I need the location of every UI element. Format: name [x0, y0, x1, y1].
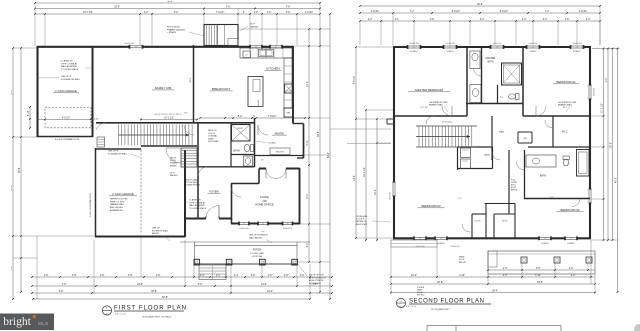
- svg-text:2’-2”: 2’-2”: [174, 12, 179, 14]
- svg-text:2’-2”: 2’-2”: [522, 19, 527, 21]
- svg-text:FOUNDATION WALL: FOUNDATION WALL: [61, 78, 81, 81]
- svg-text:4’-0”: 4’-0”: [503, 268, 508, 270]
- svg-text:2’-8 3/4”: 2’-8 3/4”: [371, 11, 380, 13]
- svg-text:BEDROOM 3: BEDROOM 3: [356, 224, 367, 226]
- svg-text:9’-0”: 9’-0”: [606, 77, 608, 82]
- svg-text:2 CAR GARAGE: 2 CAR GARAGE: [112, 192, 134, 196]
- svg-text:FACADE OF: FACADE OF: [356, 220, 367, 223]
- svg-text:4’-6”: 4’-6”: [430, 19, 435, 21]
- svg-text:36”H Railing: 36”H Railing: [442, 122, 452, 124]
- svg-text:8’-0”: 8’-0”: [307, 193, 309, 198]
- svg-text:+ STAIRS: + STAIRS: [167, 31, 176, 34]
- svg-text:CLOSING HINGES: CLOSING HINGES: [184, 185, 201, 187]
- svg-text:BEARING WALL: BEARING WALL: [429, 104, 443, 107]
- svg-text:7’-2”: 7’-2”: [410, 11, 415, 13]
- svg-text:BREAKFAST: BREAKFAST: [212, 87, 230, 91]
- svg-text:33’-0”: 33’-0”: [114, 7, 120, 9]
- svg-text:4’-0”: 4’-0”: [569, 268, 574, 270]
- svg-text:W.I.C: W.I.C: [502, 221, 508, 223]
- svg-text:W/ PTD WOOD OR: W/ PTD WOOD OR: [309, 277, 326, 279]
- svg-text:SHED: SHED: [459, 257, 465, 259]
- svg-text:ISLAND: ISLAND: [257, 99, 260, 106]
- svg-text:16’-4”: 16’-4”: [267, 291, 273, 293]
- svg-text:W.I.C.: W.I.C.: [562, 132, 568, 134]
- svg-text:5’-8”: 5’-8”: [251, 275, 256, 277]
- svg-text:10’-1 1/2”: 10’-1 1/2”: [164, 118, 174, 120]
- svg-text:GARAGE WALL: GARAGE WALL: [110, 203, 125, 206]
- svg-text:2’-6”: 2’-6”: [565, 19, 570, 21]
- svg-text:PR TR WOOD: PR TR WOOD: [167, 27, 181, 29]
- svg-text:4’-1”: 4’-1”: [395, 19, 400, 21]
- svg-text:3-0x4-0 DH: 3-0x4-0 DH: [124, 43, 134, 45]
- svg-text:14’-2”: 14’-2”: [354, 175, 356, 181]
- svg-text:9’-7”: 9’-7”: [550, 197, 554, 199]
- svg-text:CB&W ‘E’ LABEL: CB&W ‘E’ LABEL: [184, 179, 198, 182]
- svg-text:HOME OFFICE: HOME OFFICE: [255, 203, 274, 207]
- svg-text:4’-0”: 4’-0”: [307, 242, 309, 247]
- svg-text:40’-2”: 40’-2”: [616, 177, 618, 183]
- svg-text:1-4x4-0 SH: 1-4x4-0 SH: [390, 191, 392, 200]
- svg-text:36’-8”: 36’-8”: [611, 142, 613, 148]
- svg-text:8’-0x6’-8 OVERHEAD DOOR: 8’-0x6’-8 OVERHEAD DOOR: [55, 138, 80, 141]
- svg-text:(OPTIONAL): (OPTIONAL): [208, 140, 219, 143]
- svg-text:MLS: MLS: [38, 321, 49, 326]
- svg-text:MASTER BEDROOM: MASTER BEDROOM: [415, 88, 443, 92]
- svg-text:LINE OF: LINE OF: [152, 228, 161, 230]
- svg-text:EGRESS: EGRESS: [410, 51, 418, 53]
- svg-text:2x4 INTERIOR LOAD: 2x4 INTERIOR LOAD: [558, 101, 577, 104]
- svg-text:LIVING: LIVING: [260, 195, 269, 199]
- svg-text:6 CONC SLAB: 6 CONC SLAB: [250, 252, 264, 255]
- svg-text:PACK ON: PACK ON: [208, 129, 217, 132]
- svg-text:LIN.: LIN.: [523, 138, 527, 140]
- svg-text:ROOF: ROOF: [459, 259, 465, 261]
- svg-text:297 SQUARE FEET: 297 SQUARE FEET: [431, 308, 450, 311]
- svg-text:PORCH: PORCH: [253, 250, 262, 252]
- svg-text:7’-2”: 7’-2”: [545, 11, 550, 13]
- svg-text:EGRESS: EGRESS: [541, 243, 549, 245]
- svg-text:4’-8”: 4’-8”: [128, 275, 133, 277]
- svg-text:B 4 OF 4 TR @ 7 7/8” & 7 7/32”: B 4 OF 4 TR @ 7 7/8” & 7 7/32” R: [154, 114, 182, 116]
- svg-text:30’-8”: 30’-8”: [151, 291, 157, 293]
- svg-text:4’-8”: 4’-8”: [100, 275, 105, 277]
- svg-text:4’-6”: 4’-6”: [268, 275, 273, 277]
- svg-text:2x4 INTERIOR LOAD: 2x4 INTERIOR LOAD: [429, 101, 448, 104]
- svg-text:1 LAYER 5/8”: 1 LAYER 5/8”: [189, 199, 201, 202]
- svg-text:5’-0”: 5’-0”: [198, 284, 203, 286]
- svg-text:2’-0”: 2’-0”: [254, 12, 259, 14]
- svg-text:EGRESS: EGRESS: [573, 51, 581, 53]
- svg-text:BATH: BATH: [540, 175, 546, 178]
- svg-text:9’-2”: 9’-2”: [184, 113, 188, 115]
- svg-text:7’-6 1/2”: 7’-6 1/2”: [216, 12, 225, 14]
- svg-text:1 LAYER 5/8”: 1 LAYER 5/8”: [61, 60, 73, 63]
- svg-text:SHWR: SHWR: [237, 128, 243, 130]
- svg-text:CONCEAL: CONCEAL: [208, 135, 217, 138]
- svg-text:4’-10”: 4’-10”: [459, 275, 465, 277]
- svg-text:10’-0”: 10’-0”: [411, 275, 417, 277]
- svg-text:3’-0”: 3’-0”: [300, 275, 305, 277]
- svg-text:20’-8”: 20’-8”: [437, 282, 443, 284]
- svg-text:EGRESS: EGRESS: [529, 51, 537, 53]
- svg-text:7’-8”: 7’-8”: [62, 284, 67, 286]
- svg-text:39’-4”: 39’-4”: [492, 291, 498, 293]
- svg-text:1/4” = 1’-0”: 1/4” = 1’-0”: [115, 314, 126, 316]
- svg-text:FRAMED: FRAMED: [170, 162, 178, 165]
- svg-text:1-4x5-0 GL: 1-4x5-0 GL: [493, 43, 502, 45]
- svg-text:FRAMED LANDING: FRAMED LANDING: [167, 28, 185, 31]
- svg-text:7’-6”: 7’-6”: [286, 7, 291, 9]
- svg-text:16’-7 1/4”: 16’-7 1/4”: [83, 12, 93, 14]
- svg-text:STAIR: STAIR: [208, 137, 214, 140]
- svg-text:8’-8 1/2”: 8’-8 1/2”: [500, 11, 509, 13]
- svg-text:FOYER: FOYER: [209, 190, 218, 194]
- svg-text:4’-10”: 4’-10”: [535, 275, 541, 277]
- svg-text:AND CEILING: AND CEILING: [110, 206, 123, 209]
- svg-text:OR: OR: [262, 199, 266, 203]
- svg-text:WALL ABOVE: WALL ABOVE: [249, 236, 262, 239]
- svg-text:STAIRS: STAIRS: [170, 164, 177, 167]
- svg-text:FAMILY RM: FAMILY RM: [155, 86, 172, 90]
- svg-text:24’-8”: 24’-8”: [137, 284, 143, 286]
- svg-text:3’-2”: 3’-2”: [480, 19, 485, 21]
- svg-text:3-0x5-0 DH: 3-0x5-0 DH: [410, 43, 420, 45]
- svg-text:3-0x5-0 DH: 3-0x5-0 DH: [239, 228, 249, 230]
- svg-text:2’-10”: 2’-10”: [94, 118, 99, 120]
- svg-text:8’-8 1/2”: 8’-8 1/2”: [452, 11, 461, 13]
- svg-text:RAILING: RAILING: [250, 25, 258, 28]
- svg-text:2’-2”: 2’-2”: [586, 19, 591, 21]
- svg-text:1-4x6-8 DH: 1-4x6-8 DH: [451, 246, 461, 248]
- svg-text:TYPE ‘X’ GWB AT: TYPE ‘X’ GWB AT: [189, 201, 206, 204]
- svg-text:BEDROOM #3: BEDROOM #3: [422, 204, 441, 208]
- svg-text:14’-6”: 14’-6”: [261, 284, 267, 286]
- svg-text:TYPE ‘X’ GWB AT: TYPE ‘X’ GWB AT: [61, 62, 78, 65]
- svg-text:EGRESS: EGRESS: [437, 243, 445, 245]
- svg-text:ALUM. TRIM OR: ALUM. TRIM OR: [309, 279, 324, 282]
- svg-text:2N SQUARE FEET, LIV SPACE: 2N SQUARE FEET, LIV SPACE: [142, 315, 172, 318]
- svg-text:6x6 PR TR POST: 6x6 PR TR POST: [309, 275, 325, 277]
- svg-text:CLOS: CLOS: [475, 221, 481, 223]
- svg-text:3’-2”: 3’-2”: [11, 265, 13, 270]
- svg-text:BEDROOM #2: BEDROOM #2: [561, 208, 580, 212]
- svg-text:4’-0”: 4’-0”: [536, 268, 541, 270]
- svg-text:TO LIVING SPACE: TO LIVING SPACE: [189, 207, 207, 210]
- svg-text:2’-2”: 2’-2”: [368, 19, 373, 21]
- svg-text:4”: 4”: [243, 12, 245, 14]
- svg-text:REFER TO NOTES: REFER TO NOTES: [110, 199, 128, 201]
- svg-text:9’-0 1/2”: 9’-0 1/2”: [62, 117, 71, 119]
- svg-text:3-0x5-0 DH: 3-0x5-0 DH: [573, 43, 583, 45]
- svg-text:10’-0”: 10’-0”: [307, 81, 309, 87]
- svg-text:LINE OF IR: LINE OF IR: [108, 151, 119, 153]
- svg-text:18’-8”: 18’-8”: [537, 282, 543, 284]
- svg-text:4’-8”: 4’-8”: [156, 275, 161, 277]
- svg-text:16’-8”: 16’-8”: [11, 185, 13, 191]
- svg-text:12’-0”: 12’-0”: [375, 189, 377, 195]
- svg-text:16’-2 1/2”: 16’-2 1/2”: [364, 167, 366, 177]
- svg-text:50’-8”: 50’-8”: [167, 1, 173, 3]
- svg-text:RAILING: RAILING: [170, 174, 178, 177]
- svg-text:LAUN.: LAUN.: [484, 154, 490, 157]
- svg-text:3-0x5-0 DH: 3-0x5-0 DH: [446, 43, 456, 45]
- svg-text:ABOVE: ABOVE: [152, 232, 160, 235]
- svg-text:2’-2”: 2’-2”: [144, 12, 149, 14]
- svg-text:2’-4”: 2’-4”: [234, 275, 239, 277]
- svg-text:bright: bright: [3, 315, 31, 328]
- svg-text:36’-8”: 36’-8”: [19, 167, 21, 173]
- svg-text:9’-8”: 9’-8”: [11, 89, 13, 94]
- svg-text:EXTERIOR WALL: EXTERIOR WALL: [152, 229, 169, 232]
- svg-text:7’-6 1/2”: 7’-6 1/2”: [268, 116, 277, 118]
- svg-text:2’-0”: 2’-0”: [571, 275, 576, 277]
- svg-text:HALL: HALL: [499, 131, 505, 134]
- svg-text:52’-8”: 52’-8”: [162, 297, 168, 299]
- svg-text:BATH: BATH: [487, 61, 493, 64]
- svg-text:8’-10”: 8’-10”: [28, 110, 30, 116]
- svg-text:BEDROOM #4: BEDROOM #4: [557, 80, 576, 84]
- svg-text:BATH: BATH: [233, 150, 239, 153]
- svg-text:2’-8 3/4”: 2’-8 3/4”: [579, 11, 588, 13]
- svg-text:8’-5 1/2”: 8’-5 1/2”: [354, 76, 356, 85]
- svg-text:EGRESS: EGRESS: [567, 243, 575, 245]
- svg-text:2x6 WALL: 2x6 WALL: [268, 142, 276, 145]
- svg-text:40’-8”: 40’-8”: [477, 4, 483, 6]
- svg-text:2’-6”: 2’-6”: [267, 12, 272, 14]
- svg-text:CLG TO: CLG TO: [208, 133, 215, 135]
- svg-text:1/4” = 1’-0”: 1/4” = 1’-0”: [406, 306, 417, 308]
- svg-text:EGRESS: EGRESS: [446, 51, 454, 53]
- svg-text:ABOVE: ABOVE: [511, 189, 518, 192]
- svg-text:3-0x5-0 DH: 3-0x5-0 DH: [283, 228, 293, 230]
- svg-text:2-4x4-0 SH: 2-4x4-0 SH: [594, 87, 596, 96]
- svg-text:7’-6”: 7’-6”: [226, 7, 231, 9]
- svg-text:12’-1”: 12’-1”: [563, 107, 568, 109]
- svg-text:SHELVING: SHELVING: [276, 152, 285, 154]
- svg-text:36” H: 36” H: [250, 24, 255, 26]
- svg-text:5’-8”: 5’-8”: [59, 291, 64, 293]
- svg-text:5’-4”: 5’-4”: [307, 140, 309, 145]
- svg-text:MASTER: MASTER: [486, 57, 496, 60]
- svg-text:WALL ADJACENT: WALL ADJACENT: [189, 204, 206, 207]
- svg-text:3’-2”: 3’-2”: [543, 19, 548, 21]
- svg-text:ASSEMBLIES: ASSEMBLIES: [110, 209, 123, 212]
- svg-text:4’-8”: 4’-8”: [44, 275, 49, 277]
- svg-text:3-0x5-0 DH: 3-0x5-0 DH: [529, 43, 539, 45]
- svg-text:21’-2 1/2”: 21’-2 1/2”: [602, 103, 604, 113]
- svg-text:17’-7 1/2”: 17’-7 1/2”: [420, 107, 428, 109]
- svg-text:KITCHEN: KITCHEN: [266, 67, 280, 71]
- svg-text:4’-8”: 4’-8”: [72, 275, 77, 277]
- svg-text:8’-2”: 8’-2”: [238, 116, 243, 118]
- svg-text:FOUNDATION WALL: FOUNDATION WALL: [108, 152, 128, 155]
- svg-text:BELOW: BELOW: [459, 262, 466, 264]
- svg-text:SHEET #1 FOR: SHEET #1 FOR: [110, 201, 125, 203]
- svg-text:LINE OF EXTERIOR: LINE OF EXTERIOR: [249, 235, 268, 237]
- svg-text:EQUIVALENT: EQUIVALENT: [309, 282, 322, 285]
- svg-text:9’-1”: 9’-1”: [458, 198, 462, 200]
- svg-text:PANTRY: PANTRY: [275, 132, 285, 135]
- svg-text:1 CAR GARAGE: 1 CAR GARAGE: [55, 89, 77, 93]
- svg-text:8’-0x8’-0 OVERHEAD DOOR: 8’-0x8’-0 OVERHEAD DOOR: [89, 193, 92, 217]
- svg-text:2’-6”: 2’-6”: [286, 12, 291, 14]
- svg-text:LINE OF IR: LINE OF IR: [61, 76, 72, 78]
- svg-text:2’-6 3/4”: 2’-6 3/4”: [305, 12, 314, 14]
- svg-text:TO LIVING SPACE: TO LIVING SPACE: [61, 68, 79, 71]
- svg-text:REF: REF: [287, 113, 291, 115]
- svg-text:OR STONE: OR STONE: [252, 256, 263, 258]
- svg-text:WALL ADJACENT: WALL ADJACENT: [61, 65, 78, 68]
- svg-text:16’-0”: 16’-0”: [190, 77, 192, 82]
- svg-text:IN FIELD: IN FIELD: [417, 295, 425, 297]
- svg-text:4’-0”: 4’-0”: [503, 275, 508, 277]
- svg-text:2’-8”: 2’-8”: [284, 275, 289, 277]
- svg-text:36’-8”: 36’-8”: [318, 131, 320, 137]
